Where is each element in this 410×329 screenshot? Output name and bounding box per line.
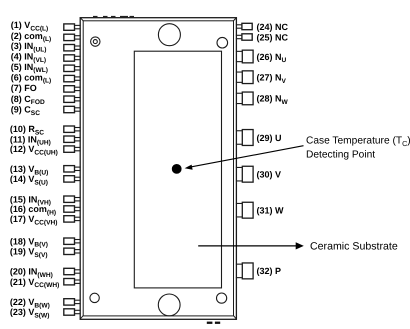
svg-text:(7) FO: (7) FO bbox=[11, 83, 37, 93]
pin 22 lead (left) bbox=[64, 299, 81, 305]
mounting hole top-left (concentric) bbox=[91, 37, 100, 46]
label (25) NC bbox=[257, 32, 289, 42]
pin labels left column bbox=[10, 20, 59, 320]
pin 2 lead (left) bbox=[64, 34, 81, 40]
pin 20 lead (left) bbox=[64, 268, 81, 274]
label (22) VB(W) bbox=[10, 297, 50, 309]
label (8) CFOD bbox=[11, 94, 45, 106]
mounting hole bottom-center bbox=[158, 294, 180, 316]
pin 17 lead (left) bbox=[64, 216, 81, 222]
label (9) CSC bbox=[11, 105, 40, 117]
label (7) FO bbox=[11, 83, 37, 93]
label (30) V bbox=[257, 170, 282, 180]
svg-text:Detecting Point: Detecting Point bbox=[306, 150, 375, 161]
pin 29 lead (right) bbox=[236, 130, 253, 146]
label (26) NU bbox=[257, 52, 287, 64]
label (21) VCC(WH) bbox=[10, 277, 59, 289]
pin 32 lead (right) bbox=[236, 263, 253, 279]
pin 9 lead (left) bbox=[64, 106, 81, 112]
pin 6 lead (left) bbox=[64, 75, 81, 81]
svg-text:Ceramic Substrate: Ceramic Substrate bbox=[310, 241, 398, 253]
label (10) RSC bbox=[10, 124, 44, 136]
pin 1 lead (left) bbox=[64, 24, 81, 30]
pin 14 lead (left) bbox=[64, 176, 81, 182]
svg-text:Case Temperature (TC): Case Temperature (TC) bbox=[306, 136, 410, 148]
label (17) VCC(VH) bbox=[10, 214, 58, 226]
label (29) U bbox=[257, 133, 282, 143]
pin 12 lead (left) bbox=[64, 146, 81, 152]
pin 28 lead (right) bbox=[236, 92, 253, 105]
label (15) IN(VH) bbox=[10, 194, 51, 206]
label (20) IN(WH) bbox=[10, 267, 53, 279]
pin 5 lead (left) bbox=[64, 65, 81, 71]
corner chamfer bottom-right bbox=[233, 315, 236, 318]
label (12) VCC(UH) bbox=[10, 144, 58, 156]
package inner edge line bbox=[83, 21, 233, 316]
mounting hole top-center bbox=[158, 24, 180, 46]
pin 21 lead (left) bbox=[64, 279, 81, 285]
corner chamfer top-left bbox=[80, 18, 83, 21]
label (14) VS(U) bbox=[10, 174, 48, 186]
pin labels right column bbox=[257, 22, 289, 276]
cropped print remnants below bottom edge bbox=[207, 322, 220, 324]
svg-text:(32) P: (32) P bbox=[257, 266, 282, 276]
label (13) VB(U) bbox=[10, 164, 48, 176]
label (1) VCC(L) bbox=[11, 20, 48, 32]
label (16) com(H) bbox=[10, 204, 56, 216]
pin 13 lead (left) bbox=[64, 166, 81, 172]
label (24) NC bbox=[257, 22, 289, 32]
annotation: case temperature detecting point bbox=[306, 136, 410, 161]
svg-text:(24) NC: (24) NC bbox=[257, 22, 289, 32]
label (32) P bbox=[257, 266, 282, 276]
label (3) IN(UL) bbox=[11, 41, 47, 53]
corner chamfer top-right bbox=[233, 18, 236, 21]
pin 26 lead (right) bbox=[236, 50, 253, 63]
pin 8 lead (left) bbox=[64, 96, 81, 102]
ceramic substrate window rectangle bbox=[134, 51, 221, 288]
pin 31 lead (right) bbox=[236, 202, 253, 218]
case temperature detecting point (black dot) bbox=[172, 164, 182, 174]
label (11) IN(UH) bbox=[10, 134, 51, 146]
label (23) VS(W) bbox=[10, 307, 50, 319]
label (5) IN(WL) bbox=[11, 62, 48, 74]
pin 4 lead (left) bbox=[64, 55, 81, 61]
corner chamfer bottom-left bbox=[80, 315, 83, 318]
pin 25 lead (right) bbox=[236, 34, 252, 40]
pin 24 lead (right) bbox=[236, 23, 252, 29]
pin 7 lead (left) bbox=[64, 86, 81, 92]
pin 3 lead (left) bbox=[64, 45, 81, 51]
mounting hole bottom-right bbox=[217, 293, 227, 303]
leader line to ceramic substrate text bbox=[198, 242, 304, 249]
label (18) VB(V) bbox=[10, 236, 48, 248]
label (4) IN(VL) bbox=[11, 52, 46, 64]
cropped print remnants above top edge bbox=[93, 16, 134, 18]
label (27) NV bbox=[257, 73, 287, 85]
pin 19 lead (left) bbox=[64, 248, 81, 254]
pin 10 lead (left) bbox=[64, 126, 81, 132]
label (31) W bbox=[257, 206, 285, 216]
annotation: ceramic substrate bbox=[310, 241, 398, 253]
pin 16 lead (left) bbox=[64, 206, 81, 212]
mounting hole top-right bbox=[217, 37, 228, 48]
package outer outline bbox=[80, 18, 236, 320]
svg-text:(29) U: (29) U bbox=[257, 133, 282, 143]
pin 15 lead (left) bbox=[64, 196, 81, 202]
pin 30 lead (right) bbox=[236, 166, 253, 182]
label (28) NW bbox=[257, 94, 289, 106]
label (19) VS(V) bbox=[10, 246, 48, 258]
mounting hole bottom-left bbox=[90, 293, 99, 302]
pin 18 lead (left) bbox=[64, 238, 81, 244]
svg-text:(25) NC: (25) NC bbox=[257, 32, 289, 42]
pin 27 lead (right) bbox=[236, 71, 253, 84]
pin 11 lead (left) bbox=[64, 136, 81, 142]
label (2) com(L) bbox=[11, 31, 51, 43]
svg-text:(30) V: (30) V bbox=[257, 170, 282, 180]
svg-text:(31) W: (31) W bbox=[257, 206, 285, 216]
pin 23 lead (left) bbox=[64, 309, 81, 315]
label (6) com(L) bbox=[11, 72, 51, 84]
leader line to case temperature text bbox=[185, 146, 304, 170]
